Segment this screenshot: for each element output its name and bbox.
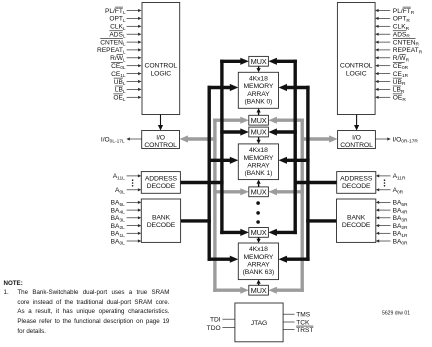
net ADSL (left input)	[109, 31, 141, 40]
svg-text:DECODE: DECODE	[147, 183, 176, 190]
svg-text:BA0L: BA0L	[111, 238, 125, 246]
svg-text:CONTROL: CONTROL	[340, 142, 373, 149]
svg-text:JTAG: JTAG	[251, 320, 267, 327]
MUX U1	[249, 56, 269, 66]
svg-text:MUX: MUX	[251, 286, 267, 295]
wire address feed left into MUX U5	[220, 229, 249, 236]
memory array block BANK 63	[238, 243, 278, 280]
svg-text:CONTROL: CONTROL	[340, 63, 373, 70]
wire address feed left into MUX U1	[220, 58, 249, 65]
svg-text:I/O: I/O	[352, 134, 361, 141]
net BA1L (left bank address)	[111, 231, 142, 239]
svg-text:I/O0R-17R: I/O0R-17R	[393, 136, 419, 144]
svg-text:OER: OER	[393, 95, 407, 103]
svg-text:DECODE: DECODE	[342, 183, 371, 190]
wire address feed right into MUX U3	[268, 128, 297, 135]
svg-text:MEMORY: MEMORY	[243, 155, 273, 162]
svg-text:A11R: A11R	[393, 173, 406, 181]
wire gray data feed left into MUX U4	[213, 188, 249, 195]
svg-text:BANK: BANK	[152, 214, 171, 221]
wire gray data feed left into MUX U2	[213, 117, 249, 124]
wire gray data bus to left I/O CONTROL	[180, 135, 217, 142]
net BA3L (left bank address)	[111, 215, 142, 223]
wire gray data feed right into MUX U2	[268, 117, 304, 124]
net BA4R (right bank address)	[376, 207, 408, 215]
net BA0R (right bank address)	[376, 238, 408, 246]
net ADSR (right input)	[375, 31, 410, 40]
wire bank-select feed left into BANK 1 array	[208, 157, 239, 164]
net I/O0L-17L (left data bus)	[101, 136, 142, 144]
drawing number 5629 drw 01	[382, 310, 410, 316]
net BA1R (right bank address)	[376, 231, 408, 239]
net CE1L (left input)	[111, 71, 141, 79]
wire MUX U4 to BANK 1	[257, 180, 261, 187]
net BA5R (right bank address)	[376, 200, 408, 208]
net CE0R (right input)	[375, 62, 408, 71]
wire right CONTROL LOGIC to I/O CONTROL	[354, 115, 359, 131]
address decode block (right)	[337, 172, 376, 194]
net CE1R (right input)	[375, 71, 408, 79]
svg-text:MUX: MUX	[251, 57, 267, 66]
node ellipsis dots (more banks)	[256, 201, 260, 224]
svg-text:TRST: TRST	[296, 327, 313, 334]
net LBR (right input)	[375, 86, 405, 95]
gray I/O data bus vertical (left)	[213, 119, 216, 292]
svg-text:DECODE: DECODE	[147, 222, 176, 229]
net OPTR (right input)	[375, 16, 410, 24]
svg-text:CONTROL: CONTROL	[144, 142, 177, 149]
memory array block BANK 1	[238, 144, 278, 180]
net PL/FTR (right input)	[375, 7, 415, 16]
control logic block (left)	[142, 3, 180, 115]
net BA0L (left bank address)	[111, 238, 142, 246]
memory array block BANK 0	[238, 72, 278, 108]
net OEL (left input)	[113, 94, 141, 103]
net OER (right input)	[375, 94, 406, 103]
net UBR (right input)	[375, 78, 406, 87]
wire MUX U3 to BANK 1	[257, 137, 261, 144]
svg-text:(BANK 0): (BANK 0)	[244, 99, 272, 106]
net TMS	[283, 312, 311, 319]
svg-text:5629 drw 01: 5629 drw 01	[382, 310, 410, 316]
net BA3R (right bank address)	[376, 215, 408, 223]
note heading	[4, 279, 23, 289]
svg-text:TMS: TMS	[296, 312, 311, 319]
svg-text:LOGIC: LOGIC	[346, 70, 367, 77]
net LBL (left input)	[115, 86, 142, 95]
svg-text:MUX: MUX	[251, 116, 267, 125]
net OPTL (left input)	[109, 16, 141, 24]
net TDI	[210, 317, 235, 324]
MUX U4	[249, 187, 269, 197]
net BA2L (left bank address)	[111, 223, 142, 231]
net CNTENL (left input)	[100, 39, 141, 48]
wire address feed right into MUX U5	[268, 229, 297, 236]
net A11R (right address msb)	[376, 173, 406, 181]
bank-select bus vertical (left)	[207, 86, 210, 261]
gray I/O data bus vertical (right)	[301, 119, 304, 292]
net A0L (left address lsb)	[115, 187, 141, 195]
MUX U6	[249, 285, 269, 295]
svg-text:4Kx18: 4Kx18	[249, 147, 268, 154]
net R/WR (right input)	[375, 54, 409, 63]
wire gray data feed left into MUX U6	[213, 287, 249, 294]
svg-text:ARRAY: ARRAY	[247, 262, 270, 269]
net CLKR (right input)	[375, 24, 409, 32]
svg-text:ARRAY: ARRAY	[247, 91, 270, 98]
svg-text:TDO: TDO	[207, 325, 221, 332]
svg-text:4Kx18: 4Kx18	[249, 76, 268, 83]
wire left BANK DECODE output	[181, 219, 211, 222]
net A11L (left address msb)	[113, 173, 142, 181]
net PL/FTL (left input)	[105, 7, 142, 16]
svg-text:BA0R: BA0R	[393, 238, 408, 246]
svg-text:MUX: MUX	[251, 187, 267, 196]
note item 1	[4, 288, 9, 298]
wire right ADDRESS DECODE output	[294, 181, 337, 184]
svg-text:MUX: MUX	[251, 128, 267, 137]
net CLKL (left input)	[110, 24, 141, 32]
svg-text:I/O0L-17L: I/O0L-17L	[101, 136, 125, 144]
wire bank-select feed right into BANK 63 array	[279, 256, 310, 263]
node address ellipsis (left)	[132, 179, 134, 186]
svg-text:A0L: A0L	[115, 187, 125, 195]
net UBL (left input)	[114, 78, 142, 87]
wire left CONTROL LOGIC to I/O CONTROL	[158, 115, 163, 131]
wire gray data feed right into MUX U6	[268, 287, 304, 294]
I/O control block (left)	[142, 131, 180, 149]
wire MUX U5 to BANK 63	[257, 237, 261, 243]
net TCK	[283, 319, 310, 326]
net REPEATL (left input)	[97, 47, 141, 55]
svg-text:MUX: MUX	[251, 228, 267, 237]
svg-text:TDI: TDI	[210, 317, 221, 324]
net BA4L (left bank address)	[111, 207, 142, 215]
wire MUX U6 to BANK 63	[257, 280, 261, 286]
wire bank-select feed left into BANK 63 array	[208, 256, 239, 263]
svg-text:DECODE: DECODE	[342, 222, 371, 229]
svg-text:MEMORY: MEMORY	[243, 83, 273, 90]
net BA5L (left bank address)	[111, 200, 142, 208]
net A0R (right address lsb)	[376, 187, 404, 195]
MUX U3	[249, 127, 269, 137]
wire bank-select feed right into BANK 1 array	[279, 157, 310, 164]
wire left ADDRESS DECODE output	[180, 181, 223, 184]
wire gray data feed right into MUX U4	[268, 188, 304, 195]
bank decode block (left)	[141, 199, 180, 242]
net TDO	[207, 325, 235, 332]
net CNTENR (right input)	[375, 39, 419, 48]
MUX U2	[249, 115, 269, 125]
net REPEATR (right input)	[375, 47, 423, 55]
wire bank-select feed left into BANK 0 array	[208, 84, 239, 91]
net BA2R (right bank address)	[376, 223, 408, 231]
svg-text:OEL: OEL	[113, 95, 126, 103]
wire address feed left into MUX U3	[220, 128, 249, 135]
wire bank-select feed right into BANK 0 array	[279, 84, 310, 91]
net I/O0R-17R (right data bus)	[375, 136, 418, 144]
svg-text:CONTROL: CONTROL	[145, 63, 178, 70]
bank decode block (right)	[337, 199, 376, 242]
I/O control block (right)	[338, 131, 376, 149]
svg-text:ARRAY: ARRAY	[247, 162, 270, 169]
svg-text:A0R: A0R	[393, 187, 404, 195]
MUX U5	[249, 228, 269, 238]
wire right BANK DECODE output	[306, 219, 336, 222]
svg-text:BANK: BANK	[347, 214, 366, 221]
address bus vertical (right)	[294, 60, 297, 235]
svg-text:A11L: A11L	[113, 173, 125, 181]
node address ellipsis (right)	[384, 179, 386, 186]
svg-text:(BANK 63): (BANK 63)	[243, 269, 275, 276]
svg-text:ADDRESS: ADDRESS	[340, 176, 373, 183]
svg-text:ADDRESS: ADDRESS	[145, 176, 178, 183]
JTAG block	[235, 303, 283, 342]
svg-text:LOGIC: LOGIC	[150, 70, 171, 77]
svg-text:4Kx18: 4Kx18	[249, 246, 268, 253]
wire gray data bus to right I/O CONTROL	[301, 135, 338, 142]
svg-text:(BANK 1): (BANK 1)	[244, 170, 272, 177]
bank-select bus vertical (right)	[306, 86, 309, 261]
svg-text:TCK: TCK	[296, 319, 310, 326]
net TRST (active low)	[283, 326, 313, 334]
svg-text:I/O: I/O	[156, 134, 165, 141]
wire MUX U2 to BANK 0	[257, 108, 261, 115]
svg-text:MEMORY: MEMORY	[243, 254, 273, 261]
address bus vertical (left)	[220, 60, 223, 235]
net R/WL (left input)	[110, 54, 141, 63]
wire address feed right into MUX U1	[268, 58, 297, 65]
wire MUX U1 to BANK 0	[257, 66, 261, 72]
net CE0L (left input)	[111, 62, 141, 71]
control logic block (right)	[337, 3, 375, 115]
address decode block (left)	[141, 172, 180, 194]
